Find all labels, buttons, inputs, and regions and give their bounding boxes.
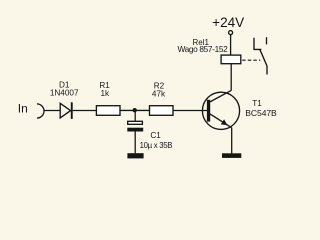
wire: T1 emitter to ground <box>231 128 233 154</box>
svg-text:47k: 47k <box>152 90 166 99</box>
resistor R2 <box>150 106 174 116</box>
resistor R1 <box>96 106 120 116</box>
transistor T1 <box>202 90 239 129</box>
wire: C1 to ground <box>134 131 136 153</box>
relay contact (changeover) <box>254 37 267 74</box>
wire: +24V terminal to relay coil <box>230 35 232 56</box>
+24V supply terminal <box>229 31 233 35</box>
svg-text:+24V: +24V <box>212 15 244 30</box>
svg-text:C1: C1 <box>150 131 161 140</box>
diode D1 <box>60 102 73 119</box>
mechanical link (dashed) coil to contact <box>242 59 260 61</box>
wire: connector to D1 anode <box>44 110 60 112</box>
ground (under T1) <box>222 153 241 158</box>
svg-text:10µ x 35B: 10µ x 35B <box>140 141 173 150</box>
wire: R2 to T1 base <box>174 110 208 112</box>
node A (junction R1/R2/C1) <box>133 108 137 112</box>
capacitor C1 (electrolytic) <box>127 121 143 131</box>
ground (under C1) <box>127 153 143 158</box>
relay coil Rel1 <box>221 55 241 64</box>
wire: R1 to node A <box>120 109 150 111</box>
wire: node A down to C1 <box>134 110 136 121</box>
svg-text:1k: 1k <box>100 89 110 98</box>
svg-text:T1: T1 <box>252 99 262 108</box>
wire: D1 cathode to R1 <box>73 110 96 112</box>
svg-text:Wago 857-152: Wago 857-152 <box>177 44 228 54</box>
input connector arc <box>37 104 44 118</box>
svg-text:BC547B: BC547B <box>245 108 277 118</box>
wire: T1 collector to relay coil <box>230 64 232 91</box>
svg-text:1N4007: 1N4007 <box>50 89 79 98</box>
svg-text:In: In <box>18 102 28 116</box>
